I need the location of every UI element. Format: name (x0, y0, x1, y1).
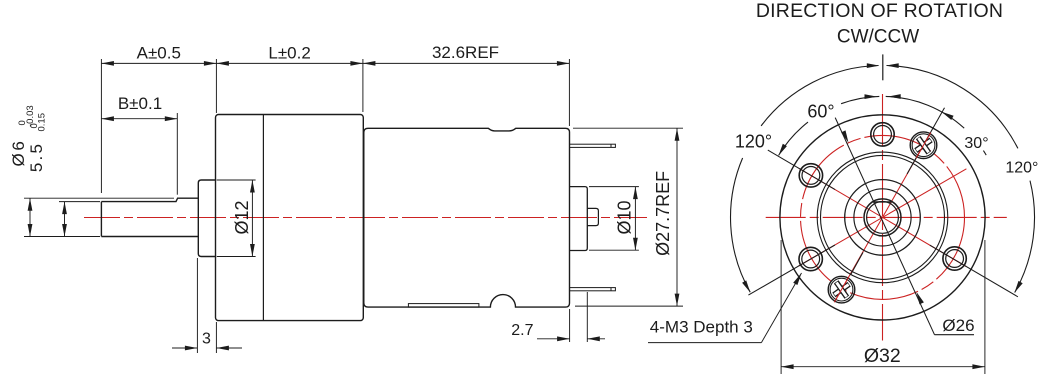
svg-text:Ø32: Ø32 (864, 345, 901, 367)
svg-text:Ø27.7REF: Ø27.7REF (653, 171, 673, 256)
svg-text:120°: 120° (735, 132, 772, 152)
svg-text:Ø12: Ø12 (232, 200, 252, 234)
svg-text:5.5: 5.5 (27, 142, 46, 172)
svg-text:Ø26: Ø26 (942, 316, 974, 335)
svg-text:2.7: 2.7 (511, 322, 533, 339)
svg-text:A±0.5: A±0.5 (137, 44, 181, 63)
svg-text:L±0.2: L±0.2 (268, 44, 310, 63)
svg-text:CW/CCW: CW/CCW (837, 26, 919, 47)
svg-text:DIRECTION OF ROTATION: DIRECTION OF ROTATION (756, 0, 1003, 22)
svg-text:B±0.1: B±0.1 (118, 94, 162, 113)
svg-text:3: 3 (202, 331, 211, 348)
svg-text:32.6REF: 32.6REF (432, 43, 499, 62)
svg-text:4-M3 Depth 3: 4-M3 Depth 3 (650, 318, 753, 337)
svg-text:Ø10: Ø10 (615, 200, 635, 234)
svg-text:60°: 60° (807, 102, 834, 122)
svg-text:0.15: 0.15 (37, 113, 48, 132)
svg-text:Ø6: Ø6 (9, 139, 28, 167)
svg-text:30°: 30° (964, 135, 988, 152)
svg-text:120°: 120° (1005, 160, 1038, 177)
